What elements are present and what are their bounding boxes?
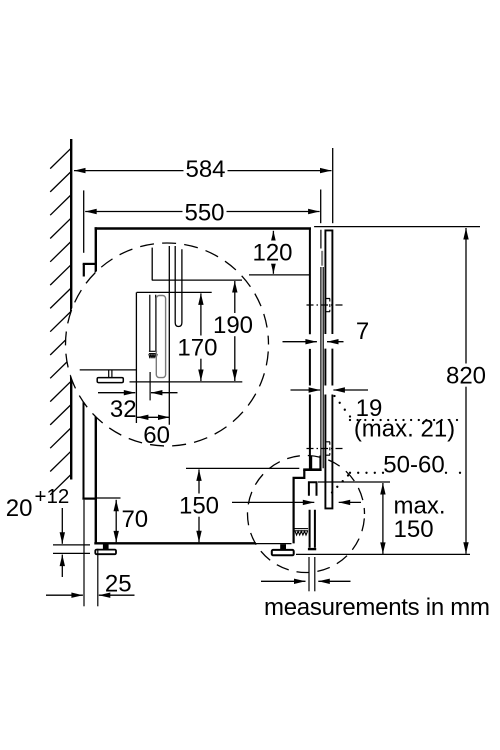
svg-text:190: 190 [213, 312, 253, 339]
wall line [70, 139, 72, 480]
svg-text:550: 550 [184, 200, 224, 227]
worktop underside line [314, 226, 480, 228]
svg-text:+12: +12 [35, 485, 70, 508]
dim 120 line [249, 274, 310, 276]
svg-text:170: 170 [177, 335, 217, 362]
svg-text:measurements in mm: measurements in mm [264, 594, 490, 621]
door hinge grey block [321, 251, 323, 266]
detail 2: bottom arrows [261, 580, 306, 582]
appliance door edge line [320, 230, 322, 469]
detail 1: worktop line [152, 279, 242, 281]
detail 1: rear panel vertical [135, 292, 137, 423]
detail circle 2 (dashed) [248, 456, 365, 573]
rear lower edge [83, 402, 85, 498]
70 extension line [97, 497, 121, 499]
svg-text:820: 820 [446, 363, 486, 390]
dim 550 [85, 211, 319, 213]
25 extension lines [83, 500, 85, 607]
dim 190 [234, 281, 236, 381]
detail 1: drain hose U-bend [175, 246, 182, 327]
detail 2: clamp lines [295, 528, 309, 530]
detail circle 1 (dashed) [66, 243, 269, 446]
svg-text:584: 584 [185, 156, 225, 183]
hinge plate 2 [325, 442, 330, 455]
svg-text:150: 150 [394, 516, 434, 543]
extension line right 550 [320, 190, 322, 224]
dim 32 [98, 392, 135, 394]
appliance door inner line [322, 267, 324, 468]
appliance front panel mid [309, 349, 311, 386]
dim 170 [200, 293, 202, 381]
detail 2: front staircase [294, 470, 305, 544]
dim 20+12 arrows [61, 508, 63, 544]
svg-text:150: 150 [179, 493, 219, 520]
dim 25 [46, 594, 83, 596]
detail 1: rear bracket [80, 369, 137, 371]
leader dots 50-60 [331, 491, 333, 493]
detail 1: base reference line [130, 381, 243, 383]
detail 1: grey hose [156, 296, 165, 378]
dim 584 [74, 170, 332, 172]
dim 7 [283, 341, 317, 343]
detail 2: plinth extension lines [308, 557, 310, 591]
20+12 reference lines [53, 544, 90, 546]
detail 2: door bottom legs [311, 456, 320, 469]
rear top notch horizontal [83, 263, 96, 265]
dim max 150 [382, 483, 384, 554]
furniture door panel [325, 230, 332, 508]
detail 2: hose guide bracket [309, 482, 317, 495]
detail 2: gap arrows [232, 501, 314, 503]
detail 1: extension line 32 [149, 372, 151, 400]
max 150 top line [318, 481, 390, 483]
detail 1: drain hose vertical [168, 246, 170, 425]
appliance bottom edge thin part [256, 543, 292, 545]
dim 19 [291, 389, 321, 391]
detail 1: clamp sawtooth [149, 354, 157, 358]
wall hatching [50, 148, 71, 169]
detail 1: bracket foot plate [97, 378, 123, 383]
rear plinth step [82, 498, 97, 500]
left adjustable foot [103, 544, 109, 549]
detail 1: left pipe [151, 248, 153, 281]
detail 2: sawtooth [295, 531, 308, 535]
extension line left (550) [83, 190, 85, 252]
svg-text:7: 7 [356, 318, 369, 345]
leader dots 19 [333, 395, 335, 397]
detail 2: door bottom bar [303, 468, 321, 471]
hinge 1 centerline [307, 304, 344, 306]
appliance rear side panel [95, 227, 97, 543]
dim 70 [115, 500, 117, 543]
hinge 2 centerline [307, 448, 344, 450]
svg-text:70: 70 [121, 506, 148, 533]
150 clearance line [186, 467, 299, 469]
dim 60 [137, 416, 170, 418]
svg-text:20: 20 [6, 495, 33, 522]
detail 1: hose holder line [137, 291, 212, 293]
detail 2: plinth panel [310, 510, 315, 548]
rear top notch vertical [83, 264, 85, 277]
detail 2: foot plate [272, 550, 294, 555]
appliance bottom edge [94, 542, 256, 544]
svg-text:(max. 21): (max. 21) [354, 416, 455, 443]
svg-text:32: 32 [110, 396, 137, 423]
svg-text:120: 120 [252, 240, 292, 267]
appliance front panel upper [309, 229, 311, 335]
detail 1: bracket foot stem [109, 371, 112, 378]
svg-text:25: 25 [105, 571, 132, 598]
dim 820 [465, 228, 467, 554]
floor line [296, 553, 470, 555]
svg-text:60: 60 [143, 422, 170, 449]
hinge plate 1 [325, 299, 330, 312]
detail 2: foot stem [280, 544, 286, 550]
appliance top edge [95, 227, 311, 229]
detail 1: standpipe channel [150, 295, 156, 351]
extension line right 584 [332, 148, 334, 223]
dim 150 [198, 469, 200, 542]
appliance front panel lower [309, 395, 311, 470]
svg-text:50-60: 50-60 [383, 452, 444, 479]
